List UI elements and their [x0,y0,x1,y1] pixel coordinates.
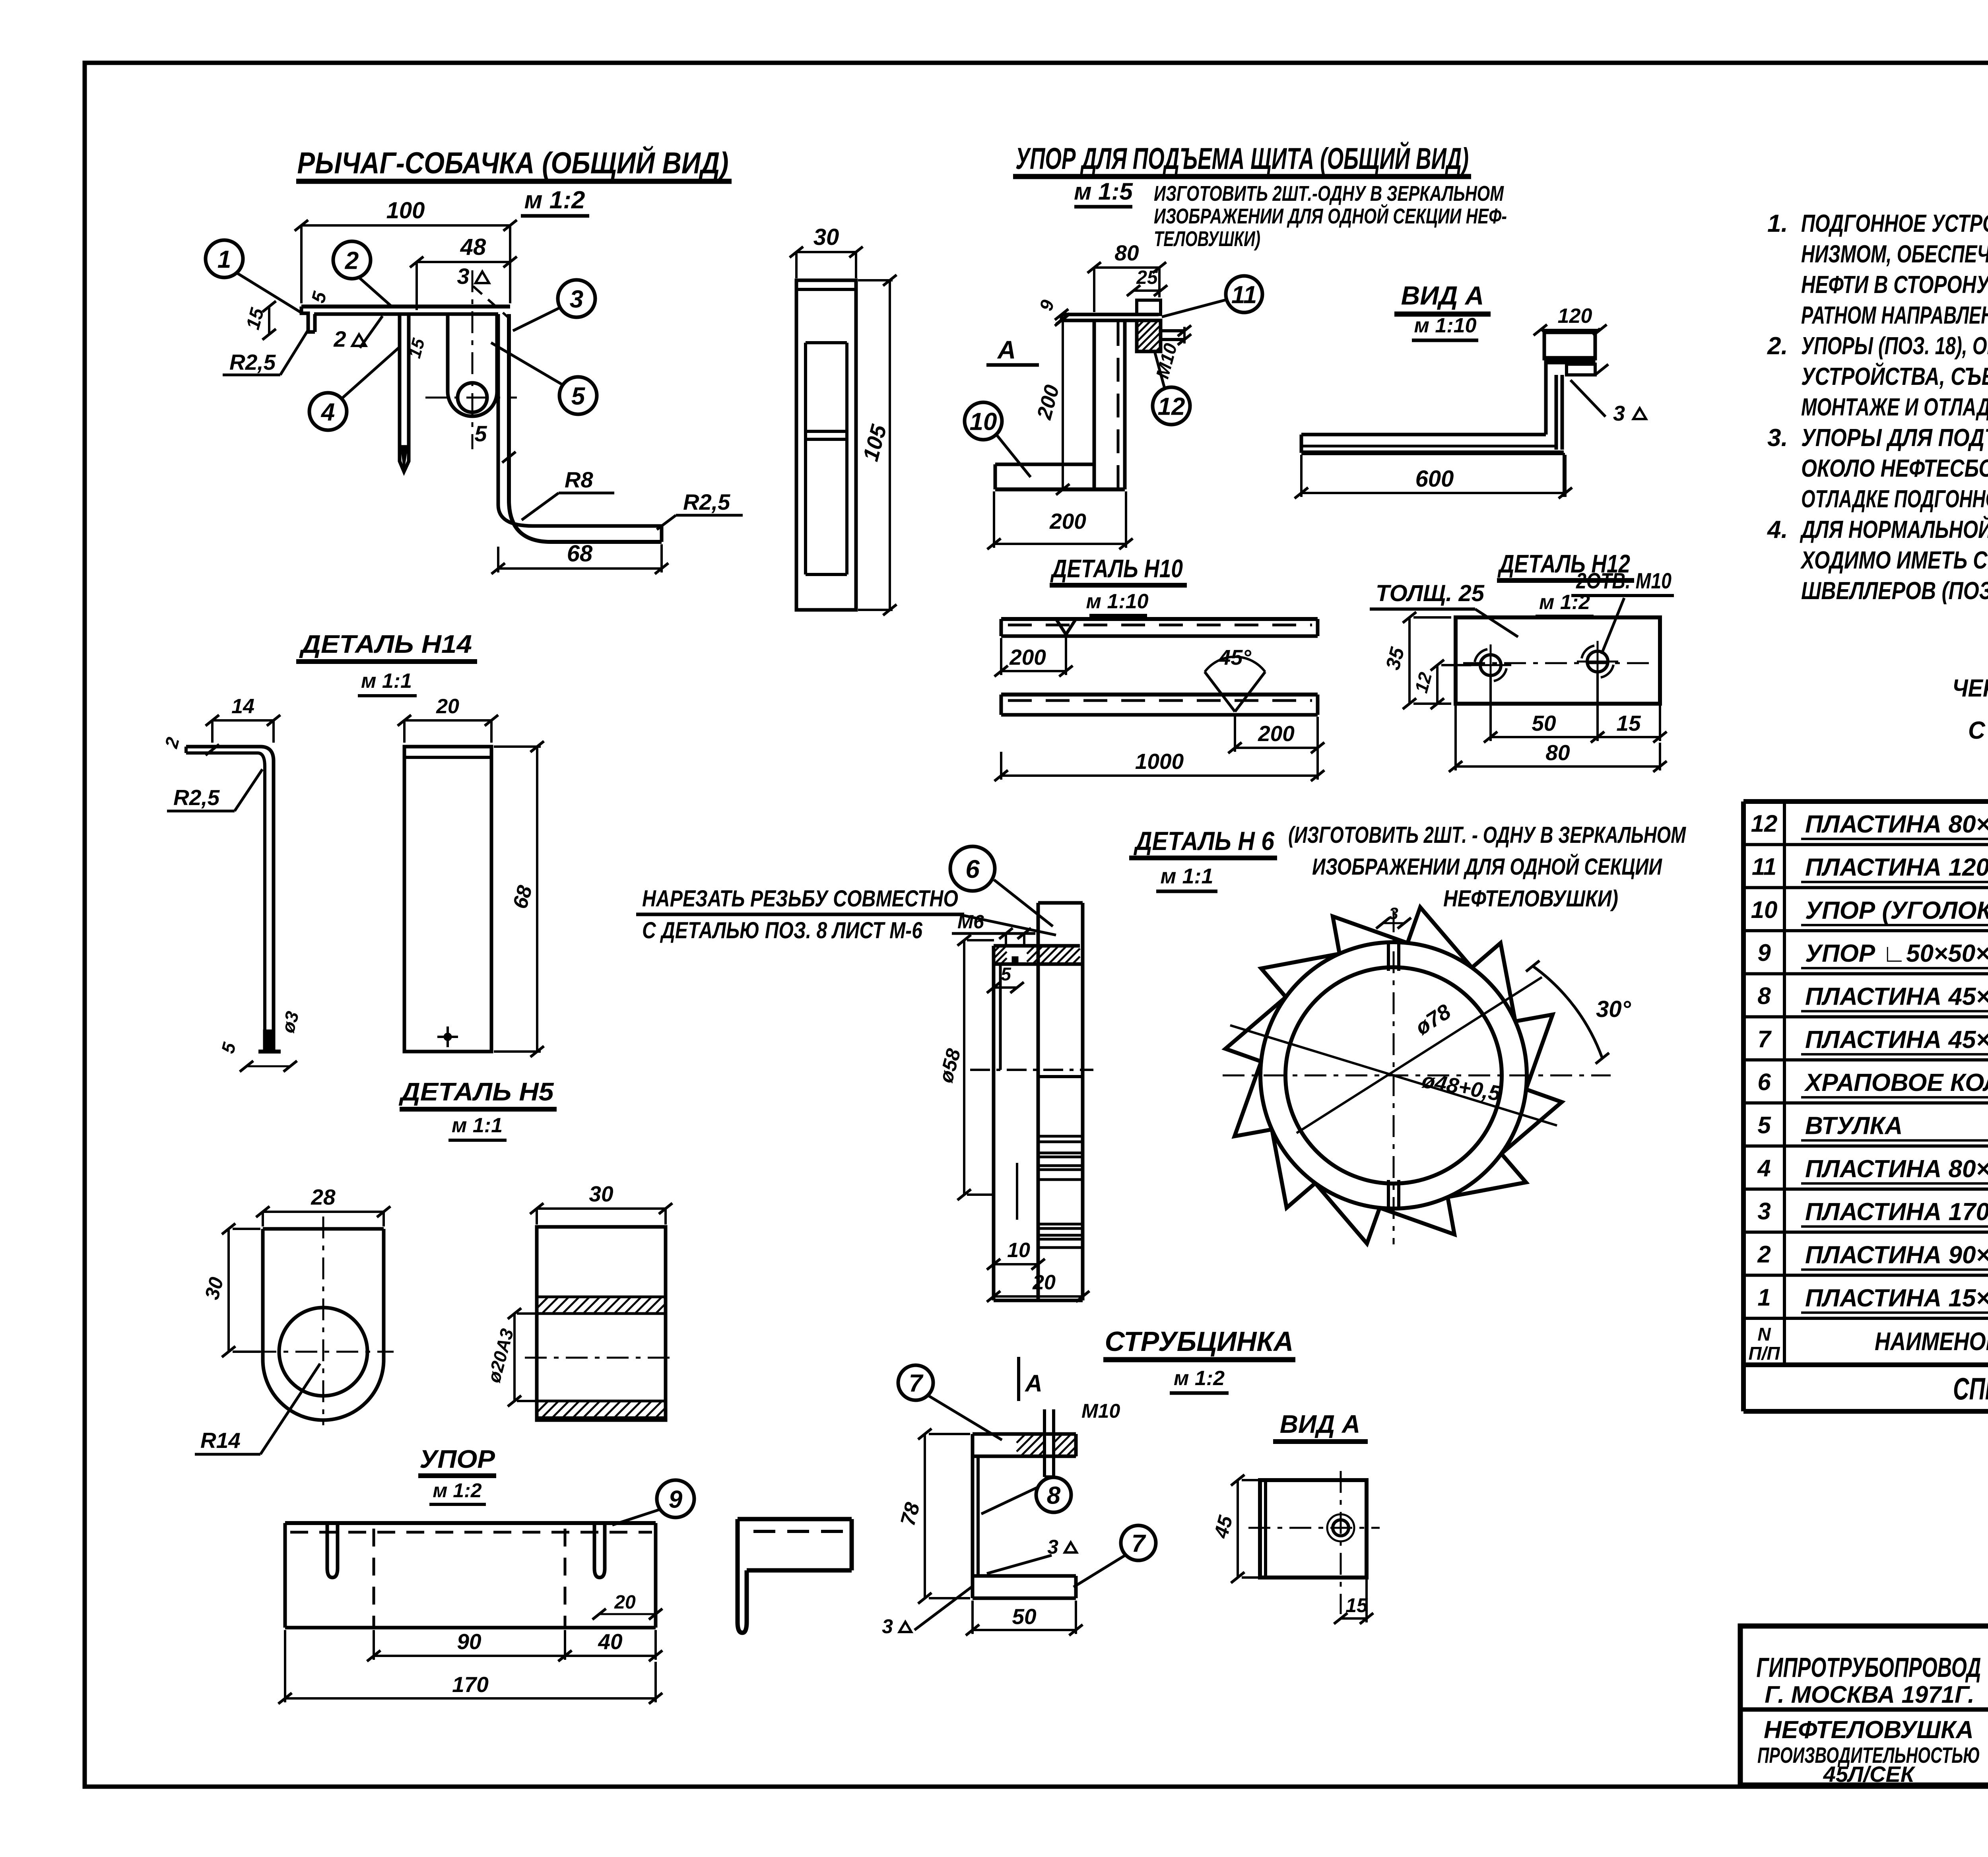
svg-text:80: 80 [1114,241,1139,265]
svg-text:1.: 1. [1767,210,1788,237]
svg-text:200: 200 [1033,382,1064,422]
svg-text:2: 2 [333,326,346,351]
svg-text:м 1:1: м 1:1 [452,1114,503,1137]
svg-text:48: 48 [460,234,486,260]
svg-text:ХОДИМО ИМЕТЬ СМАЗАННУЮ ПОВЕРХН: ХОДИМО ИМЕТЬ СМАЗАННУЮ ПОВЕРХНОСТЬ НАПРА… [1800,547,1988,574]
svg-text:ИЗОБРАЖЕНИИ ДЛЯ ОДНОЙ СЕКЦИИ Н: ИЗОБРАЖЕНИИ ДЛЯ ОДНОЙ СЕКЦИИ НЕФ- [1154,204,1507,228]
svg-text:ДЕТАЛЬ Н14: ДЕТАЛЬ Н14 [299,630,472,658]
svg-text:М10: М10 [1081,1400,1120,1422]
svg-text:45Л/СЕК: 45Л/СЕК [1823,1762,1916,1787]
svg-text:R2,5: R2,5 [173,785,220,810]
svg-text:78: 78 [896,1500,924,1528]
svg-text:ВИД А: ВИД А [1280,1410,1360,1438]
svg-text:УПОР (УГОЛОК 40×40×4): УПОР (УГОЛОК 40×40×4) [1805,897,1988,924]
svg-text:35: 35 [1381,644,1409,672]
svg-text:11: 11 [1231,281,1257,309]
svg-text:9: 9 [1757,939,1771,966]
svg-text:105: 105 [858,421,891,464]
svg-text:3: 3 [1389,904,1398,923]
svg-text:5: 5 [1001,964,1011,984]
svg-text:20: 20 [1032,1271,1056,1294]
svg-text:5: 5 [1757,1112,1771,1138]
svg-text:м 1:2: м 1:2 [433,1479,481,1502]
svg-text:15: 15 [1616,711,1641,735]
svg-text:R2,5: R2,5 [683,489,730,514]
svg-text:5: 5 [474,421,487,446]
svg-text:ДЕТАЛЬ Н 6: ДЕТАЛЬ Н 6 [1134,826,1275,856]
svg-text:30: 30 [200,1275,228,1302]
svg-text:28: 28 [311,1185,336,1209]
svg-text:ХРАПОВОЕ КОЛЕСО: ХРАПОВОЕ КОЛЕСО [1804,1069,1988,1096]
svg-text:м 1:1: м 1:1 [1161,864,1213,888]
svg-text:УПОРЫ ДЛЯ ПОДЪЕМА ЩИТА (ПОЗ. 2: УПОРЫ ДЛЯ ПОДЪЕМА ЩИТА (ПОЗ. 23) УСТАНАВ… [1801,424,1988,452]
svg-text:R8: R8 [565,467,593,492]
svg-text:ОКОЛО НЕФТЕСБОРНОЙ ТРУБЫ ПО МЕ: ОКОЛО НЕФТЕСБОРНОЙ ТРУБЫ ПО МЕСТУ ПРИ МО… [1801,454,1988,482]
svg-text:3: 3 [457,264,469,289]
svg-text:УСТРОЙСТВА, СЪЕМНЫЕ И УСТРАИВА: УСТРОЙСТВА, СЪЕМНЫЕ И УСТРАИВАЮТСЯ ПО МЕ… [1801,362,1988,390]
svg-text:6: 6 [1757,1069,1771,1095]
svg-text:4: 4 [320,398,335,426]
svg-text:3.: 3. [1767,424,1788,452]
svg-text:2: 2 [161,735,183,751]
svg-text:ГИПРОТРУБОПРОВОД: ГИПРОТРУБОПРОВОД [1757,1652,1981,1683]
svg-text:40: 40 [598,1629,623,1654]
svg-text:ДЕТАЛЬ Н5: ДЕТАЛЬ Н5 [398,1077,554,1106]
svg-text:1: 1 [217,246,231,273]
svg-text:ПЛАСТИНА 120×80 δ=9: ПЛАСТИНА 120×80 δ=9 [1805,854,1988,881]
svg-text:170: 170 [452,1672,489,1697]
svg-text:м 1:10: м 1:10 [1086,590,1149,613]
svg-text:50: 50 [1012,1604,1037,1629]
svg-text:(ИЗГОТОВИТЬ 2ШТ. - ОДНУ В ЗЕРК: (ИЗГОТОВИТЬ 2ШТ. - ОДНУ В ЗЕРКАЛЬНОМ [1288,822,1686,848]
svg-text:УПОР ДЛЯ ПОДЪЕМА ЩИТА (ОБЩИЙ В: УПОР ДЛЯ ПОДЪЕМА ЩИТА (ОБЩИЙ ВИД) [1015,141,1469,176]
svg-text:ТОЛЩ. 25: ТОЛЩ. 25 [1376,580,1485,606]
svg-text:9: 9 [1035,297,1058,313]
svg-text:4.: 4. [1767,516,1788,543]
svg-text:ПЛАСТИНА 15×30 δ=5ММ: ПЛАСТИНА 15×30 δ=5ММ [1805,1285,1988,1312]
svg-text:МОНТАЖЕ И ОТЛАДКЕ ВСЕГО УСТРОЙ: МОНТАЖЕ И ОТЛАДКЕ ВСЕГО УСТРОЙСТВА. [1801,393,1988,421]
svg-text:ТЕЛОВУШКИ): ТЕЛОВУШКИ) [1154,227,1260,251]
svg-text:УПОР: УПОР [419,1445,495,1473]
svg-text:ø78: ø78 [1411,999,1455,1040]
svg-text:УПОРЫ (ПОЗ. 18), ОГРАНИЧИВАЮЩИ: УПОРЫ (ПОЗ. 18), ОГРАНИЧИВАЮЩИЕ ПЕРЕДВИЖ… [1801,332,1988,360]
svg-text:200: 200 [1258,721,1295,746]
svg-text:68: 68 [509,883,537,911]
svg-text:ø20А3: ø20А3 [483,1326,518,1385]
svg-text:1000: 1000 [1135,749,1184,774]
svg-text:10: 10 [970,408,997,435]
svg-text:м 1:2: м 1:2 [1174,1367,1225,1390]
svg-text:30°: 30° [1596,996,1631,1022]
svg-text:11: 11 [1752,853,1776,880]
svg-text:6: 6 [965,855,980,883]
svg-text:С ЛИСТОМ М-2.: С ЛИСТОМ М-2. [1968,717,1988,744]
svg-text:ЧЕРТЕЖ РАССМАТРИВАТЬ СОВМЕСТНО: ЧЕРТЕЖ РАССМАТРИВАТЬ СОВМЕСТНО [1952,675,1988,702]
svg-text:ПЛАСТИНА 170×30 δ=5ММ: ПЛАСТИНА 170×30 δ=5ММ [1805,1198,1988,1226]
svg-text:ШВЕЛЛЕРОВ (ПОЗ. 1) И ТОЧНУЮ УС: ШВЕЛЛЕРОВ (ПОЗ. 1) И ТОЧНУЮ УСТАНОВКУ ВС… [1801,577,1988,605]
svg-text:2: 2 [345,247,359,274]
svg-text:ø48+0,5: ø48+0,5 [1420,1068,1503,1106]
svg-text:П/П: П/П [1749,1343,1780,1364]
svg-text:м 1:2: м 1:2 [524,186,585,214]
svg-text:ИЗГОТОВИТЬ 2ШТ.-ОДНУ В ЗЕРКАЛЬ: ИЗГОТОВИТЬ 2ШТ.-ОДНУ В ЗЕРКАЛЬНОМ [1154,182,1504,206]
svg-text:ПЛАСТИНА 80×35 δ=25: ПЛАСТИНА 80×35 δ=25 [1805,811,1988,838]
svg-text:200: 200 [1049,509,1086,534]
svg-text:600: 600 [1415,466,1454,492]
svg-text:100: 100 [386,198,425,223]
svg-text:45: 45 [1209,1513,1237,1541]
svg-text:м 1:5: м 1:5 [1074,178,1133,205]
svg-text:5: 5 [308,289,331,305]
svg-text:ВТУЛКА: ВТУЛКА [1805,1112,1903,1139]
svg-text:ПЛАСТИНА 45×50 δ=9ММ: ПЛАСТИНА 45×50 δ=9ММ [1805,1026,1988,1054]
svg-text:4: 4 [1757,1155,1771,1182]
svg-text:2: 2 [1757,1241,1771,1267]
svg-text:20: 20 [614,1592,636,1613]
svg-text:90: 90 [457,1629,481,1654]
svg-text:УПОР ∟50×50×4: УПОР ∟50×50×4 [1805,940,1988,967]
svg-text:А: А [997,336,1016,364]
svg-text:5: 5 [217,1040,240,1056]
svg-text:N: N [1757,1324,1771,1345]
svg-text:9: 9 [669,1486,683,1513]
svg-text:ПОДГОННОЕ УСТРОЙСТВО ОБОРУДОВА: ПОДГОННОЕ УСТРОЙСТВО ОБОРУДОВАНО СПЕЦИАЛ… [1801,209,1988,237]
svg-text:ø3: ø3 [277,1009,303,1035]
svg-text:СПЕЦИФИКАЦИЯ: СПЕЦИФИКАЦИЯ [1953,1371,1988,1406]
svg-text:200: 200 [1009,645,1046,669]
svg-text:7: 7 [1757,1026,1772,1052]
svg-text:68: 68 [567,541,593,567]
svg-text:СТРУБЦИНКА: СТРУБЦИНКА [1105,1326,1294,1357]
svg-text:1: 1 [1757,1284,1771,1311]
svg-text:ИЗОБРАЖЕНИИ ДЛЯ ОДНОЙ СЕКЦИИ: ИЗОБРАЖЕНИИ ДЛЯ ОДНОЙ СЕКЦИИ [1312,854,1662,880]
svg-text:12: 12 [1411,670,1436,695]
svg-text:НЕФТИ В СТОРОНУ НЕФТЕСБОРНОЙ Т: НЕФТИ В СТОРОНУ НЕФТЕСБОРНОЙ ТРУБЫ, ПРИ … [1801,270,1988,299]
svg-text:НИЗМОМ, ОБЕСПЕЧИВАЮЩИМ ДВИЖЕНИ: НИЗМОМ, ОБЕСПЕЧИВАЮЩИМ ДВИЖЕНИЕ ЩИТА ДЛЯ… [1801,241,1988,268]
svg-text:3: 3 [1757,1198,1771,1224]
svg-text:НЕФТЕЛОВУШКА: НЕФТЕЛОВУШКА [1764,1716,1974,1744]
svg-text:14: 14 [231,695,254,718]
svg-text:12: 12 [1158,393,1185,420]
svg-text:2.: 2. [1767,332,1788,360]
svg-text:НЕФТЕЛОВУШКИ): НЕФТЕЛОВУШКИ) [1443,886,1618,912]
svg-text:С ДЕТАЛЬЮ ПОЗ. 8 ЛИСТ М-6: С ДЕТАЛЬЮ ПОЗ. 8 ЛИСТ М-6 [642,918,923,943]
svg-text:НАИМЕНОВАНИЕ: НАИМЕНОВАНИЕ [1875,1327,1988,1356]
svg-text:25: 25 [1136,267,1158,288]
svg-text:м 1:1: м 1:1 [361,669,412,693]
svg-text:50: 50 [1532,711,1556,735]
svg-text:3: 3 [570,285,583,313]
svg-text:R14: R14 [200,1428,241,1453]
svg-text:5: 5 [571,382,586,410]
svg-text:НАРЕЗАТЬ РЕЗЬБУ СОВМЕСТНО: НАРЕЗАТЬ РЕЗЬБУ СОВМЕСТНО [642,886,958,912]
svg-text:10: 10 [1751,896,1778,923]
svg-text:ПЛАСТИНА 45×70 δ=9: ПЛАСТИНА 45×70 δ=9 [1805,983,1988,1010]
svg-text:ПЛАСТИНА 80×20 δ=2ММ: ПЛАСТИНА 80×20 δ=2ММ [1805,1155,1988,1183]
svg-text:ОТЛАДКЕ ПОДГОННОГО УСТРОЙСТВА.: ОТЛАДКЕ ПОДГОННОГО УСТРОЙСТВА. [1801,485,1988,513]
svg-text:12: 12 [1751,810,1778,837]
svg-text:3: 3 [1613,402,1625,425]
svg-text:ДЛЯ НОРМАЛЬНОЙ РАБОТЫ ПОДГОННО: ДЛЯ НОРМАЛЬНОЙ РАБОТЫ ПОДГОННОГО УСТРОЙС… [1800,515,1988,543]
svg-text:10: 10 [1007,1239,1030,1262]
svg-text:30: 30 [813,224,839,250]
svg-text:7: 7 [909,1370,924,1397]
svg-text:А: А [1024,1370,1042,1397]
svg-text:РЫЧАГ-СОБАЧКА (ОБЩИЙ ВИД): РЫЧАГ-СОБАЧКА (ОБЩИЙ ВИД) [297,146,729,180]
svg-text:Г. МОСКВА 1971Г.: Г. МОСКВА 1971Г. [1765,1681,1974,1708]
svg-text:2ОТВ. М10: 2ОТВ. М10 [1576,568,1672,593]
svg-text:20: 20 [436,695,459,718]
svg-text:м 1:10: м 1:10 [1414,314,1477,337]
svg-text:45°: 45° [1218,646,1251,669]
svg-text:15: 15 [1345,1594,1368,1616]
svg-text:М6: М6 [957,912,984,933]
svg-text:7: 7 [1132,1530,1146,1557]
svg-text:РАТНОМ НАПРАВЛЕНИИ ЩИТ ПОДНИМА: РАТНОМ НАПРАВЛЕНИИ ЩИТ ПОДНИМАЕТСЯ. [1801,302,1988,329]
svg-text:ø58: ø58 [934,1046,965,1085]
svg-text:8: 8 [1757,982,1771,1009]
svg-text:30: 30 [589,1182,613,1206]
svg-text:ДЕТАЛЬ Н10: ДЕТАЛЬ Н10 [1050,554,1183,583]
svg-text:R2,5: R2,5 [229,350,276,375]
svg-text:ПЛАСТИНА 90×30 δ=5ММ: ПЛАСТИНА 90×30 δ=5ММ [1805,1241,1988,1269]
svg-text:120: 120 [1558,305,1592,328]
svg-text:ВИД А: ВИД А [1401,281,1484,310]
svg-text:8: 8 [1047,1482,1061,1509]
svg-text:80: 80 [1545,740,1570,765]
svg-text:3: 3 [882,1615,893,1638]
